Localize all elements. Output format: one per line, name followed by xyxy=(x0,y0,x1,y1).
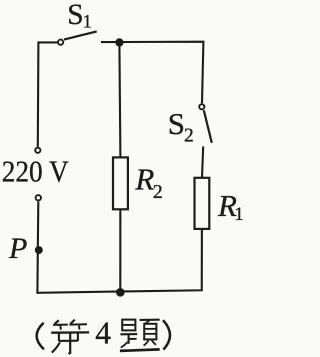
switch S1 contact circle xyxy=(58,40,63,45)
svg-text:1: 1 xyxy=(83,12,93,33)
svg-text:2: 2 xyxy=(153,181,163,203)
caption hanzi ti (题) drawn as strokes xyxy=(120,320,160,351)
resistor R2 xyxy=(113,157,128,209)
wire S2 to R1 xyxy=(202,146,203,177)
svg-text:P: P xyxy=(8,232,27,265)
wire middle branch lower: R2 to bottom junction xyxy=(119,209,121,292)
battery terminal top circle xyxy=(35,148,40,153)
battery terminal bottom circle xyxy=(36,195,41,200)
svg-text:2: 2 xyxy=(184,126,194,147)
switch S2 contact circle xyxy=(199,104,204,109)
switch S1 blade xyxy=(64,31,97,39)
wire right-bottom + bottom rail + left-bottom to battery bottom terminal xyxy=(37,202,202,293)
svg-text:1: 1 xyxy=(234,204,243,225)
caption close paren xyxy=(163,320,170,349)
node junction top xyxy=(115,38,123,46)
node P dot xyxy=(35,246,43,254)
svg-text:R: R xyxy=(134,162,154,197)
caption open paren xyxy=(37,323,44,350)
wire top-right: S1 gap to top-right corner down to S2 xyxy=(101,42,203,103)
svg-text:S: S xyxy=(67,0,83,31)
svg-text:220 V: 220 V xyxy=(2,153,70,188)
switch S2 blade xyxy=(204,110,212,143)
svg-text:S: S xyxy=(168,106,185,141)
resistor R1 xyxy=(195,178,210,229)
svg-text:4: 4 xyxy=(95,316,111,351)
node junction bottom xyxy=(116,288,125,297)
wire middle branch upper: junction to R2 xyxy=(119,42,120,157)
caption hanzi di (第) drawn as strokes xyxy=(51,320,89,355)
wire left-top: battery top terminal up and across to switch S1 xyxy=(38,42,58,146)
